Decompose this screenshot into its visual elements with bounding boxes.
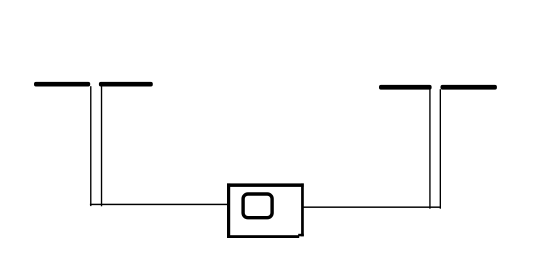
- capacitor C1 right plate: [99, 82, 153, 87]
- wire (component U1 to right node): [304, 206, 441, 207]
- wire (left node to component U1): [90, 204, 228, 205]
- component U1 box bottom-right corner bridge: [298, 234, 304, 237]
- capacitor C2 left plate: [379, 85, 432, 90]
- capacitor C1 lead wire (left, vertical): [90, 86, 91, 206]
- capacitor C2 lead wire (right, vertical): [440, 89, 441, 209]
- capacitor C2 right plate: [441, 85, 497, 90]
- component U1 inner rounded window: [243, 194, 272, 218]
- component U1 box top edge: [227, 183, 304, 187]
- capacitor C1 lead wire (right, vertical): [101, 86, 102, 206]
- capacitor C2 lead wire (left, vertical): [429, 89, 430, 209]
- component U1 box left edge: [227, 183, 230, 238]
- capacitor C1 left plate: [34, 82, 90, 87]
- component U1 box right edge: [301, 183, 304, 236]
- component U1 box bottom edge: [227, 235, 299, 238]
